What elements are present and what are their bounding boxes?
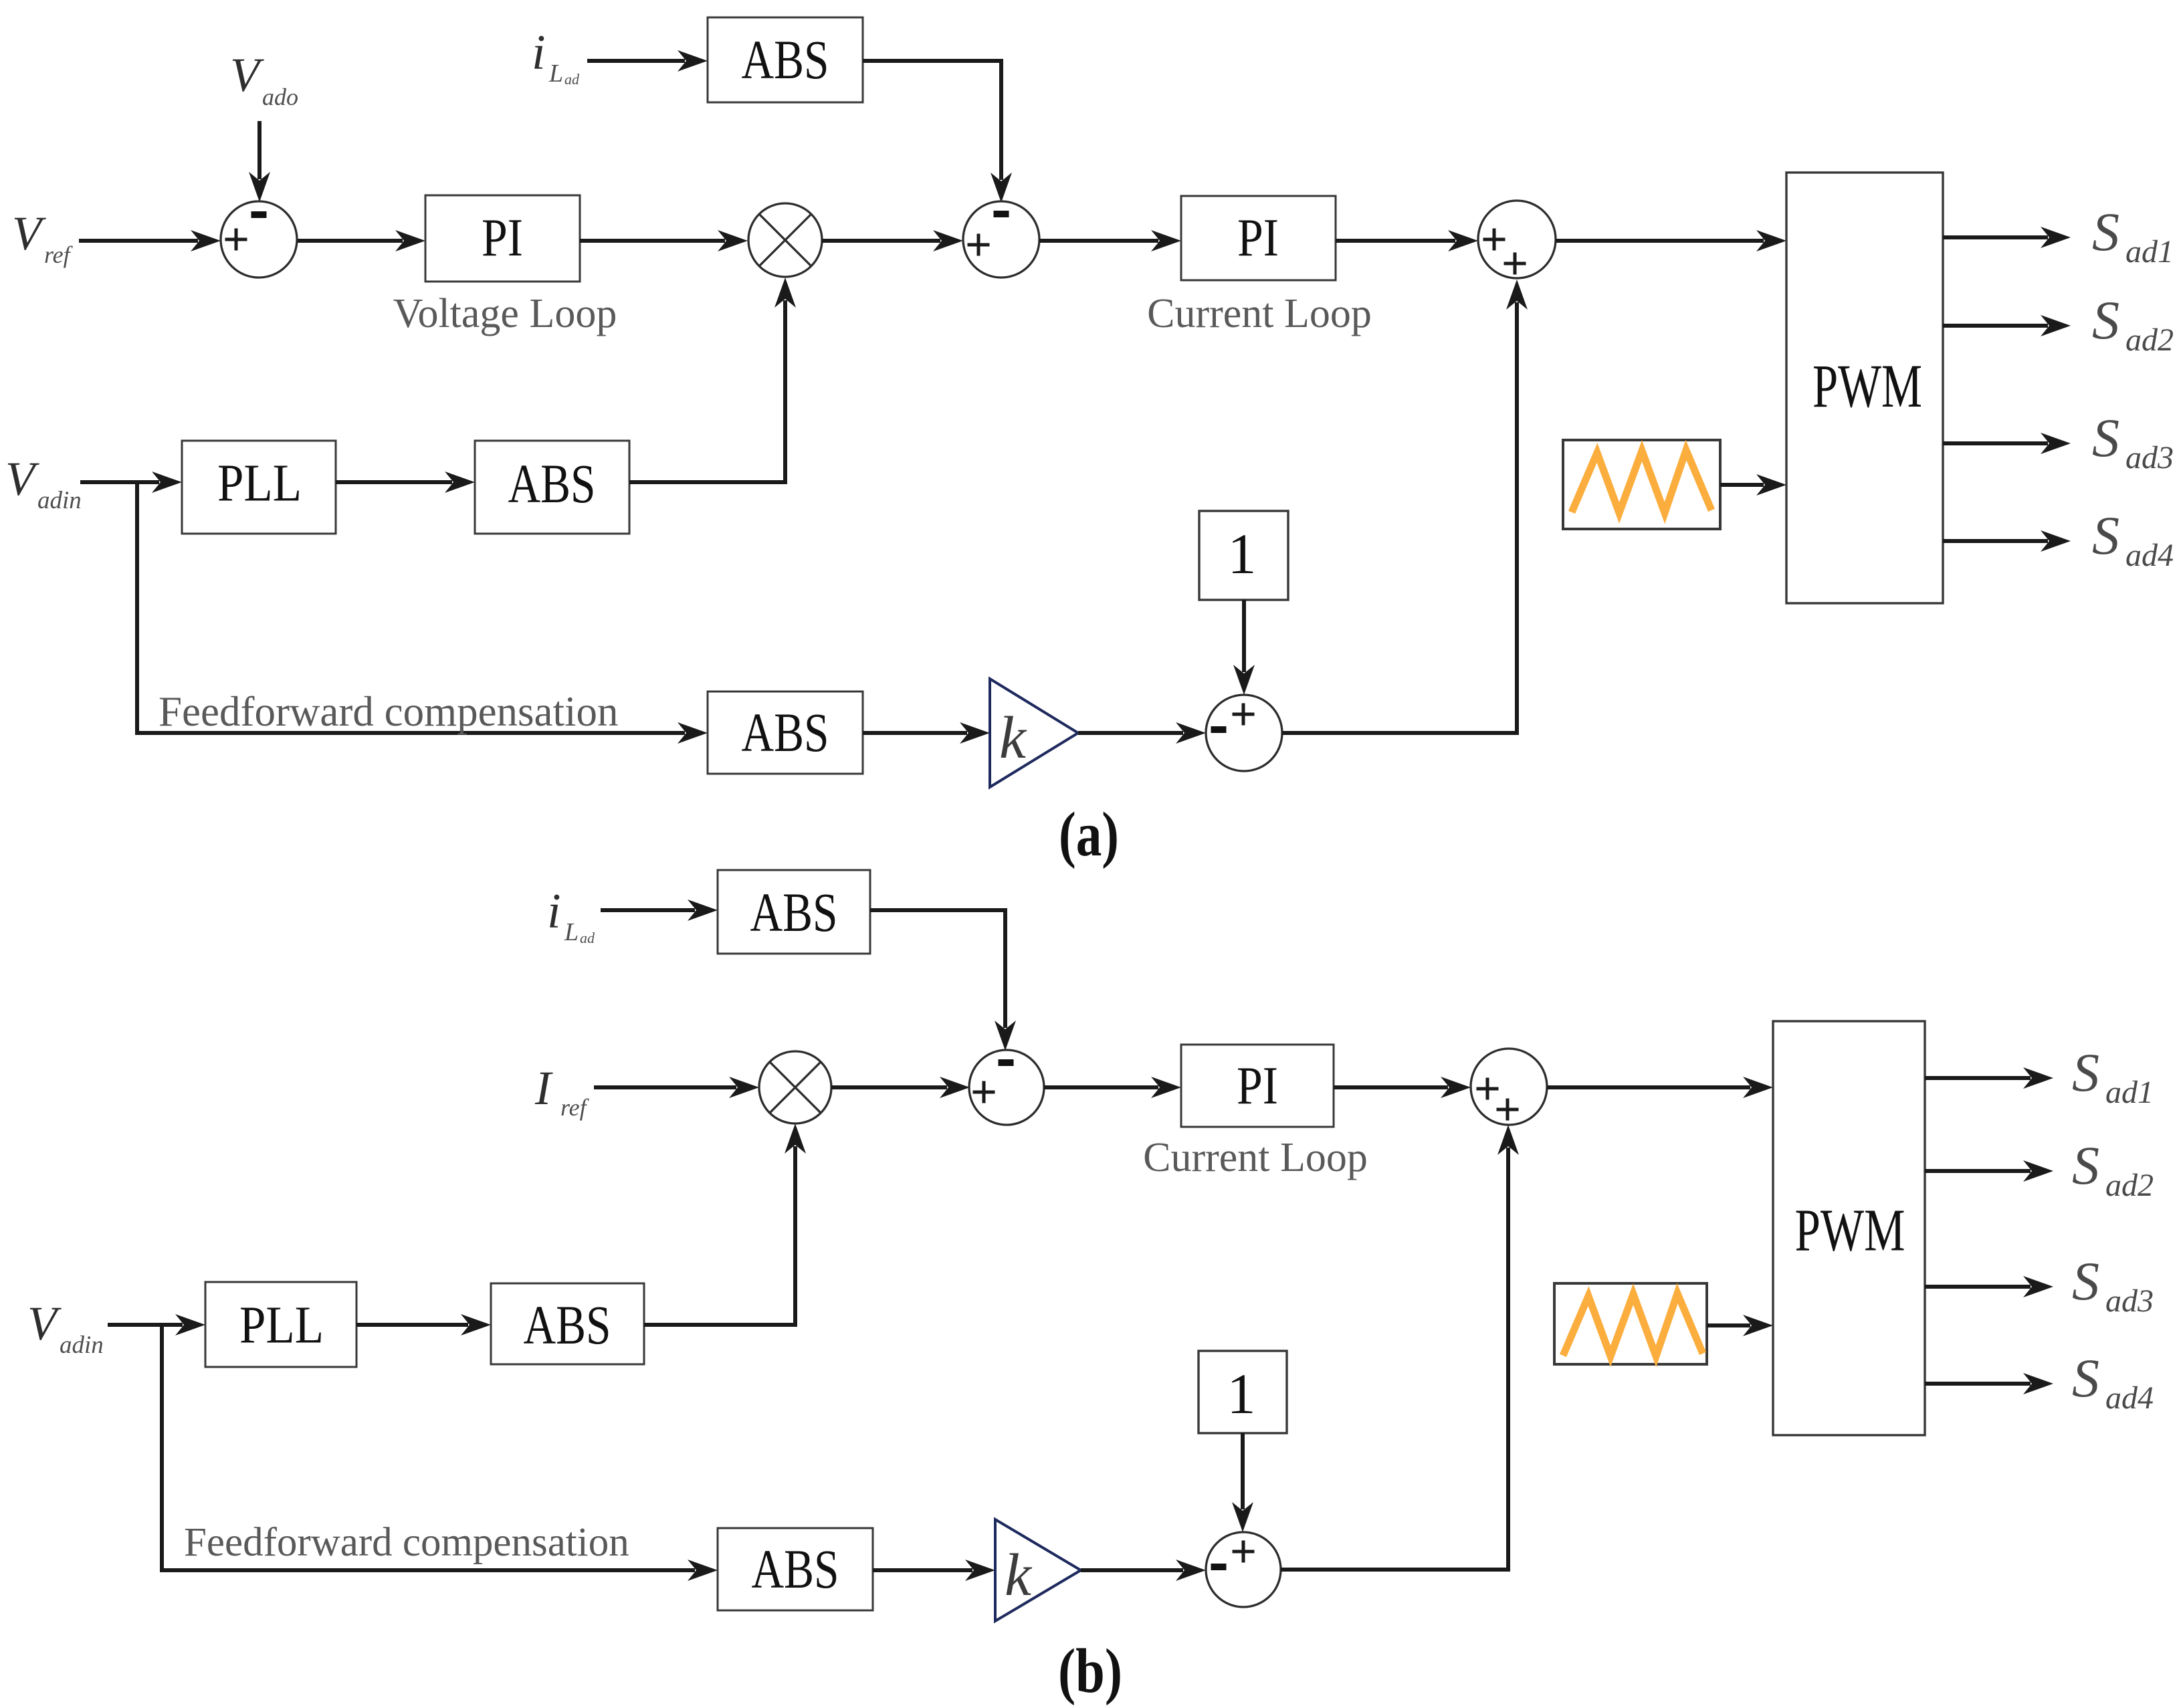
- block PI voltage controller (a): [425, 195, 580, 282]
- wire S4a to S3a: [1282, 280, 1528, 733]
- svg-text:k: k: [1005, 1542, 1033, 1608]
- wire Vref to S1a: [79, 230, 221, 251]
- wire constant 1 to S4a: [1233, 600, 1255, 695]
- summing junction S3b: [1206, 1532, 1281, 1607]
- svg-text:S: S: [2072, 1348, 2099, 1408]
- svg-text:ad2: ad2: [2125, 322, 2174, 358]
- svg-text:ad1: ad1: [2105, 1075, 2154, 1110]
- wire PLL to ABS2 (b): [356, 1314, 491, 1336]
- svg-text:ad4: ad4: [2125, 538, 2174, 573]
- label Current Loop (a): [1147, 291, 1372, 336]
- label (b): [1058, 1636, 1122, 1706]
- svg-text:I: I: [534, 1061, 553, 1115]
- svg-text:ad: ad: [564, 71, 580, 88]
- svg-text:i: i: [532, 25, 546, 80]
- wire iL_ad to ABS (a): [587, 50, 708, 72]
- wire constant 1 to S3b: [1232, 1433, 1253, 1532]
- svg-text:PWM: PWM: [1812, 352, 1922, 420]
- node Sad1 output label (b): [2072, 1042, 2154, 1110]
- svg-text:PI: PI: [1237, 209, 1279, 268]
- block ABS2 (b): [491, 1283, 644, 1364]
- block ABS top (b): [718, 870, 870, 954]
- svg-text:ado: ado: [262, 84, 298, 110]
- svg-text:PLL: PLL: [239, 1297, 324, 1355]
- svg-text:1: 1: [1228, 522, 1257, 586]
- svg-text:PLL: PLL: [217, 455, 302, 513]
- wire PWM to Sad2 output (a): [1943, 315, 2071, 336]
- carrier wave generator (b): [1554, 1283, 1707, 1364]
- block constant 1 (b): [1199, 1351, 1287, 1433]
- wire M1a to S2a: [822, 230, 963, 251]
- wire Vadin to PLL (a): [80, 471, 182, 493]
- svg-text:adin: adin: [60, 1331, 104, 1359]
- block ABS3 feedforward (b): [718, 1528, 873, 1610]
- wire ABS2 to multiplier M1b: [644, 1124, 806, 1325]
- node Vadin input label (a): [5, 452, 82, 514]
- wire ABS3 to gain k (b): [873, 1560, 995, 1581]
- svg-text:PI: PI: [1237, 1057, 1278, 1115]
- svg-text:ad1: ad1: [2125, 234, 2174, 270]
- wire S1a to PI voltage loop: [298, 230, 425, 251]
- node Sad2 output label (a): [2092, 290, 2174, 358]
- wire M1b to S1b: [831, 1077, 970, 1098]
- node iL_ad input label (a): [532, 25, 580, 88]
- svg-text:Feedforward compensation: Feedforward compensation: [184, 1520, 629, 1565]
- svg-text:S: S: [2072, 1042, 2099, 1103]
- svg-text:(a): (a): [1059, 800, 1119, 869]
- svg-text:ref: ref: [44, 241, 74, 268]
- gain k (b): [995, 1519, 1081, 1621]
- wire S2b to PWM (b): [1547, 1077, 1773, 1098]
- wire ABS to summing junction S2a: [863, 61, 1012, 203]
- wire PWM to Sad2 output (b): [1925, 1160, 2053, 1182]
- svg-text:Current Loop: Current Loop: [1147, 291, 1372, 336]
- wire ABS3 to gain k (a): [863, 722, 990, 744]
- svg-text:V: V: [27, 1297, 62, 1350]
- svg-text:ad2: ad2: [2105, 1168, 2154, 1203]
- svg-text:V: V: [5, 452, 39, 506]
- node Vadin input label (b): [27, 1297, 104, 1359]
- node Sad3 output label (a): [2092, 407, 2174, 475]
- svg-text:ad3: ad3: [2105, 1283, 2154, 1319]
- svg-text:k: k: [999, 705, 1027, 771]
- wire carrier to PWM (b): [1707, 1315, 1773, 1336]
- label (a): [1059, 800, 1119, 869]
- svg-text:S: S: [2072, 1251, 2099, 1311]
- svg-text:Current Loop: Current Loop: [1143, 1135, 1368, 1180]
- block PWM (b): [1773, 1021, 1925, 1435]
- summing junction S2b: [1471, 1049, 1547, 1125]
- wire PWM to Sad1 output (b): [1925, 1067, 2053, 1089]
- node Sad3 output label (b): [2072, 1251, 2154, 1319]
- multiplier M1a: [748, 203, 822, 277]
- svg-text:S: S: [2092, 505, 2119, 566]
- label Feedforward compensation (b): [184, 1520, 629, 1565]
- wire PWM to Sad3 output (b): [1925, 1276, 2053, 1297]
- block ABS top (a): [708, 17, 863, 102]
- svg-text:i: i: [547, 884, 561, 939]
- block PI current controller (b): [1181, 1045, 1334, 1127]
- wire ABS2 to multiplier M1a: [629, 278, 796, 482]
- carrier wave generator (a): [1563, 440, 1720, 529]
- wire PI current to S3a: [1336, 230, 1478, 251]
- svg-text:ad4: ad4: [2105, 1380, 2154, 1416]
- svg-text:ABS: ABS: [742, 702, 829, 763]
- svg-text:V: V: [230, 48, 264, 102]
- svg-text:L: L: [564, 918, 579, 946]
- block ABS3 feedforward (a): [708, 691, 863, 774]
- svg-text:Voltage Loop: Voltage Loop: [393, 291, 617, 336]
- wire PWM to Sad4 output (b): [1925, 1373, 2053, 1394]
- node Sad1 output label (a): [2092, 201, 2174, 270]
- wire k to S4a: [1078, 722, 1206, 744]
- summing junction S3a: [1478, 201, 1556, 278]
- block constant 1 (a): [1199, 511, 1288, 600]
- wire iL_ad to ABS (b): [601, 899, 718, 921]
- svg-text:PWM: PWM: [1795, 1198, 1905, 1264]
- svg-text:S: S: [2072, 1135, 2099, 1196]
- wire PWM to Sad3 output (a): [1943, 433, 2071, 454]
- block PWM (a): [1786, 173, 1943, 603]
- node Vado input label (a): [230, 48, 298, 110]
- node Iref input label (b): [534, 1061, 590, 1121]
- node Vref input label (a): [12, 207, 74, 268]
- summing junction S4a: [1206, 695, 1282, 771]
- wire PLL to ABS2 (a): [336, 471, 475, 493]
- wire S2a to PI current loop (a): [1039, 230, 1181, 251]
- summing junction S2a: [963, 201, 1039, 278]
- wire Vadin branch down (b): [162, 1325, 718, 1581]
- wire Vadin to PLL (b): [108, 1314, 205, 1336]
- svg-text:ABS: ABS: [524, 1294, 611, 1356]
- svg-text:ABS: ABS: [508, 453, 596, 514]
- svg-text:L: L: [548, 60, 563, 88]
- summing junction S1a: [221, 201, 297, 278]
- svg-text:(b): (b): [1058, 1636, 1122, 1706]
- wire Vadin branch down (a): [137, 482, 708, 744]
- label Current Loop (b): [1143, 1135, 1368, 1180]
- wire S3a to PWM (a): [1556, 230, 1786, 251]
- gain k (a): [990, 679, 1078, 787]
- multiplier M1b: [759, 1051, 831, 1124]
- svg-text:1: 1: [1227, 1362, 1256, 1426]
- wire k to S3b: [1081, 1560, 1206, 1581]
- label Voltage Loop (a): [393, 291, 617, 336]
- svg-text:ABS: ABS: [752, 1538, 839, 1600]
- wire Iref to multiplier M1b: [594, 1077, 759, 1098]
- wire carrier to PWM (a): [1720, 474, 1786, 496]
- svg-text:S: S: [2092, 290, 2119, 350]
- wire PWM to Sad1 output (a): [1943, 227, 2071, 248]
- svg-text:Feedforward compensation: Feedforward compensation: [159, 688, 619, 735]
- block PLL (b): [205, 1282, 356, 1367]
- summing junction S1b: [969, 1050, 1044, 1125]
- block PLL (a): [182, 441, 336, 534]
- svg-text:V: V: [12, 207, 46, 260]
- svg-text:adin: adin: [37, 487, 82, 514]
- svg-text:ad3: ad3: [2125, 440, 2174, 475]
- svg-text:ABS: ABS: [750, 881, 838, 943]
- wire PI to multiplier M1a: [580, 230, 748, 251]
- label Feedforward compensation (a): [159, 688, 619, 735]
- node iL_ad input label (b): [547, 884, 595, 946]
- node Sad2 output label (b): [2072, 1135, 2154, 1203]
- wire S1b to PI (b): [1044, 1077, 1181, 1098]
- block ABS2 (a): [475, 441, 629, 534]
- node Sad4 output label (a): [2092, 505, 2174, 573]
- svg-text:ref: ref: [560, 1094, 590, 1121]
- svg-text:PI: PI: [482, 209, 523, 268]
- wire PI to S2b: [1334, 1077, 1471, 1098]
- svg-text:ABS: ABS: [742, 29, 829, 90]
- wire Vado to summing junction S1a: [249, 121, 270, 202]
- block PI current controller (a): [1181, 196, 1336, 280]
- node Sad4 output label (b): [2072, 1348, 2154, 1416]
- svg-text:S: S: [2092, 201, 2119, 262]
- wire PWM to Sad4 output (a): [1943, 530, 2071, 552]
- svg-text:S: S: [2092, 407, 2119, 468]
- svg-text:ad: ad: [580, 930, 595, 946]
- wire S3b to S2b: [1281, 1125, 1519, 1570]
- wire ABS to summing junction S1b: [870, 910, 1016, 1051]
